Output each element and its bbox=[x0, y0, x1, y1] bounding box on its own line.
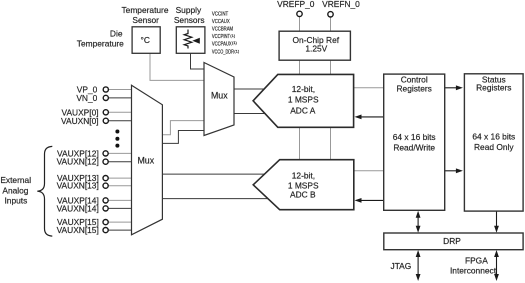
node VAUXP[14] terminal bbox=[103, 198, 108, 203]
node VREFN_0 terminal bbox=[328, 12, 333, 17]
svg-text:VCCPAUX: VCCPAUX bbox=[212, 42, 232, 48]
node VAUXN[13] terminal bbox=[103, 183, 108, 188]
svg-text:ADC A: ADC A bbox=[290, 105, 316, 115]
svg-text:VAUXN[14]: VAUXN[14] bbox=[57, 203, 99, 213]
svg-text:Read Only: Read Only bbox=[474, 142, 514, 152]
svg-text:External: External bbox=[0, 175, 31, 185]
supply sensors zener symbol bbox=[184, 30, 192, 49]
svg-text:Read/Write: Read/Write bbox=[393, 143, 435, 153]
status registers box bbox=[464, 74, 523, 211]
svg-text:Analog: Analog bbox=[2, 185, 28, 195]
sensor mux bbox=[204, 63, 234, 136]
svg-text:(1): (1) bbox=[232, 40, 238, 45]
node VAUXP[0] terminal bbox=[103, 110, 108, 115]
brace external analog inputs bbox=[37, 146, 52, 236]
wire ADC A to control registers bbox=[354, 87, 384, 89]
svg-text:12-bit,: 12-bit, bbox=[292, 170, 315, 180]
svg-text:Interconnect: Interconnect bbox=[450, 265, 497, 275]
svg-text:Die: Die bbox=[110, 29, 123, 39]
svg-text:°C: °C bbox=[140, 35, 149, 45]
node VAUXN[14] terminal bbox=[103, 206, 108, 211]
wire ADC A to ADC B ref left bbox=[299, 127, 301, 159]
svg-text:VCCBRAM: VCCBRAM bbox=[212, 27, 234, 33]
svg-text:Mux: Mux bbox=[137, 156, 154, 166]
ADC A pentagon bbox=[253, 74, 354, 127]
svg-text:VAUXN[15]: VAUXN[15] bbox=[57, 225, 99, 235]
arrow DRP to FPGA interconnect bidirectional bbox=[496, 253, 498, 277]
wire ref to ADC A right bbox=[330, 60, 332, 74]
temperature sensor box bbox=[132, 27, 160, 54]
wire VAUXN[0] stub bbox=[109, 120, 133, 122]
wire VAUXN[12] stub bbox=[109, 161, 133, 163]
svg-text:VAUXN[0]: VAUXN[0] bbox=[61, 116, 99, 126]
wire VAUXP[12] stub bbox=[109, 152, 133, 154]
supply sensors arrow bbox=[192, 38, 200, 44]
arrow status registers to DRP bbox=[496, 211, 498, 229]
svg-text:VREFN_0: VREFN_0 bbox=[322, 0, 360, 9]
control registers box bbox=[384, 74, 445, 210]
svg-text:(1): (1) bbox=[230, 33, 236, 38]
svg-text:Registers: Registers bbox=[476, 83, 511, 93]
svg-text:Temperature: Temperature bbox=[77, 39, 124, 49]
arrow control registers to ADC A bbox=[360, 116, 384, 118]
svg-text:1.25V: 1.25V bbox=[305, 44, 327, 54]
wire ADC B to control registers bbox=[354, 170, 384, 172]
wire VREFN_0 stem bbox=[330, 18, 332, 32]
ellipsis dots between input groups bbox=[115, 130, 119, 134]
wire temperature sensor to sensor mux bbox=[150, 53, 204, 80]
svg-text:FPGA: FPGA bbox=[465, 255, 488, 265]
svg-text:VCCAUX: VCCAUX bbox=[212, 19, 230, 25]
arrow control registers to status registers upper bbox=[445, 87, 457, 89]
svg-text:Sensors: Sensors bbox=[174, 15, 205, 25]
node VAUXP[12] terminal bbox=[103, 151, 108, 156]
svg-text:VCCPINT: VCCPINT bbox=[212, 34, 231, 40]
svg-text:Inputs: Inputs bbox=[4, 196, 27, 206]
ADC B pentagon bbox=[253, 160, 354, 210]
node VAUXN[12] terminal bbox=[103, 159, 108, 164]
node VAUXP[13] terminal bbox=[103, 176, 108, 181]
svg-text:JTAG: JTAG bbox=[391, 261, 412, 271]
wire supply sensors to sensor mux bbox=[191, 53, 205, 69]
svg-text:ADC B: ADC B bbox=[290, 190, 316, 200]
arrow control registers to DRP bidirectional bbox=[417, 215, 419, 229]
node VN_0 terminal bbox=[103, 95, 108, 100]
wire main mux to sensor mux P bbox=[162, 121, 204, 135]
svg-text:VN_0: VN_0 bbox=[76, 93, 97, 103]
wire VAUXP[0] stub bbox=[109, 111, 133, 113]
wire VAUXP[14] stub bbox=[109, 199, 133, 201]
wire VAUXN[15] stub bbox=[109, 229, 133, 231]
wire sensor mux to ADC A upper bbox=[234, 88, 268, 90]
node VAUXN[15] terminal bbox=[103, 228, 108, 233]
svg-text:VCCINT: VCCINT bbox=[212, 12, 229, 18]
wire VN_0 stub bbox=[109, 97, 133, 99]
node VREFP_0 terminal bbox=[297, 11, 302, 16]
arrow control registers to ADC B bbox=[360, 199, 384, 201]
wire VREFP_0 stem bbox=[299, 17, 301, 31]
svg-text:12-bit,: 12-bit, bbox=[292, 84, 315, 94]
wire main mux to sensor mux N bbox=[162, 131, 204, 144]
wire sensor mux to ADC A lower bbox=[234, 113, 270, 115]
on-chip ref box bbox=[279, 31, 350, 60]
svg-text:64 x 16 bits: 64 x 16 bits bbox=[472, 132, 515, 142]
node VAUXP[15] terminal bbox=[103, 220, 108, 225]
wire VAUXN[13] stub bbox=[109, 185, 133, 187]
node VAUXN[0] terminal bbox=[103, 118, 108, 123]
wire main mux to ADC B lower bbox=[162, 198, 270, 200]
DRP box bbox=[384, 233, 523, 250]
svg-text:(1): (1) bbox=[234, 48, 240, 53]
svg-text:DRP: DRP bbox=[443, 236, 461, 246]
svg-text:Mux: Mux bbox=[211, 91, 228, 101]
main mux (external inputs) bbox=[132, 85, 163, 235]
wire VP_0 stub bbox=[109, 89, 133, 91]
svg-text:VREFP_0: VREFP_0 bbox=[277, 0, 315, 9]
node VP_0 terminal bbox=[103, 87, 108, 92]
wire VAUXP[15] stub bbox=[109, 221, 133, 223]
wire main mux to ADC B upper bbox=[162, 173, 268, 175]
wire ref to ADC A left bbox=[299, 60, 301, 74]
wire ADC A to ADC B ref right bbox=[330, 127, 332, 159]
svg-text:Temperature: Temperature bbox=[121, 5, 168, 15]
svg-text:VAUXN[12]: VAUXN[12] bbox=[57, 157, 99, 167]
svg-text:Supply: Supply bbox=[176, 5, 202, 15]
svg-text:VCCO_DDR: VCCO_DDR bbox=[212, 50, 234, 56]
svg-text:1 MSPS: 1 MSPS bbox=[288, 94, 319, 104]
supply sensors box bbox=[176, 27, 205, 54]
wire VAUXP[13] stub bbox=[109, 177, 133, 179]
svg-text:Sensor: Sensor bbox=[132, 15, 159, 25]
svg-text:VAUXN[13]: VAUXN[13] bbox=[57, 181, 99, 191]
svg-text:64 x 16 bits: 64 x 16 bits bbox=[393, 132, 436, 142]
arrow DRP to JTAG bidirectional bbox=[417, 253, 419, 277]
wire VAUXN[14] stub bbox=[109, 207, 133, 209]
arrow control registers to status registers lower bbox=[445, 170, 457, 172]
svg-text:Registers: Registers bbox=[397, 84, 432, 94]
